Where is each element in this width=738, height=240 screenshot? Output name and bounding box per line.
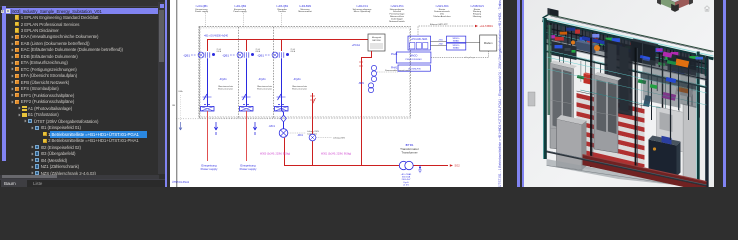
svg-text:WAGO: WAGO <box>410 55 418 58</box>
svg-text:=+I01-QB2: =+I01-QB2 <box>234 5 247 8</box>
svg-text:Lüftung 230V: Lüftung 230V <box>333 137 346 140</box>
svg-text:=+I04-BM1: =+I04-BM1 <box>299 5 312 8</box>
svg-text:Measurement: Measurement <box>298 10 312 13</box>
svg-text:-QB1: -QB1 <box>222 54 229 58</box>
svg-text:Power supply: Power supply <box>195 10 209 13</box>
svg-text:PGA1: PGA1 <box>391 53 398 56</box>
svg-text:-FQA1: -FQA1 <box>219 77 227 81</box>
svg-text:Messgerät: Messgerät <box>372 36 382 39</box>
svg-text:Power supply: Power supply <box>201 167 218 171</box>
svg-text:-BM1: -BM1 <box>358 82 364 85</box>
svg-text:-QB1: -QB1 <box>183 54 190 58</box>
svg-text:PM-M-12DR-MX: PM-M-12DR-MX <box>406 59 423 61</box>
svg-text:Ethernet CAT.5 FTP: Ethernet CAT.5 FTP <box>430 23 448 26</box>
svg-text:Power supply: Power supply <box>240 167 257 171</box>
svg-text:-TB2: -TB2 <box>438 44 444 46</box>
svg-text:Netzwerk/switch: Netzwerk/switch <box>389 20 406 23</box>
svg-text:=+NZ1-PC1: =+NZ1-PC1 <box>390 5 404 8</box>
svg-text:-MC1: -MC1 <box>269 124 276 128</box>
svg-text:Übertrag: Übertrag <box>473 15 482 18</box>
svg-text:PAC3200: PAC3200 <box>372 39 381 42</box>
svg-text:W301 (3x240, 220M, 963kg): W301 (3x240, 220M, 963kg) <box>321 153 351 156</box>
svg-text:Lüftung 230V: Lüftung 230V <box>307 130 320 133</box>
svg-text:ÜTST.I01-PGA1: ÜTST.I01-PGA1 <box>172 181 190 184</box>
svg-text:630 A: 630 A <box>291 50 296 53</box>
svg-text:+B1+TRA1: +B1+TRA1 <box>401 173 413 176</box>
svg-text:Short-circuit prot.: Short-circuit prot. <box>292 87 308 90</box>
svg-text:-FQA1: -FQA1 <box>293 77 301 81</box>
svg-text:VW-SIM-PIN: VW-SIM-PIN <box>408 68 421 70</box>
svg-text:W300 (3x240, 220M, 963kg): W300 (3x240, 220M, 963kg) <box>260 153 290 156</box>
svg-text:=+I01-QB1: =+I01-QB1 <box>195 5 208 8</box>
svg-text:-QB1: -QB1 <box>257 54 264 58</box>
svg-text:Mess- Spannung: Mess- Spannung <box>354 11 371 13</box>
svg-text:+PCA1: +PCA1 <box>352 43 361 47</box>
svg-text:SG2: SG2 <box>455 164 461 168</box>
svg-text:Telefon Anschluss: Telefon Anschluss <box>433 15 451 18</box>
svg-text:=+TAB-WV1: =+TAB-WV1 <box>470 5 484 8</box>
svg-text:Short-circuit prot.: Short-circuit prot. <box>218 87 234 90</box>
svg-text:=+I03-QB1: =+I03-QB1 <box>276 5 289 8</box>
svg-text:=+NZ1-XD1: =+NZ1-XD1 <box>435 5 449 8</box>
svg-text:630 kVA: 630 kVA <box>402 176 411 179</box>
svg-text:uk 6%: uk 6% <box>403 184 409 186</box>
svg-text:-MC1: -MC1 <box>297 134 304 137</box>
svg-text:SMA01: SMA01 <box>453 39 460 42</box>
svg-text:-FQA1: -FQA1 <box>258 77 266 81</box>
svg-text:=+I04-FC1: =+I04-FC1 <box>356 5 369 8</box>
svg-text:Transfer: Transfer <box>278 10 286 13</box>
svg-text:+A1-TAB01: +A1-TAB01 <box>480 24 494 28</box>
svg-text:Modem: Modem <box>484 41 493 45</box>
svg-text:Transformer: Transformer <box>401 150 417 154</box>
svg-text:Short-circuit prot.: Short-circuit prot. <box>257 87 273 90</box>
svg-text:Power supply: Power supply <box>233 10 247 13</box>
svg-text:ÜB: ÜB <box>172 104 176 107</box>
svg-text:SMA02: SMA02 <box>453 46 460 49</box>
svg-text:PHA1: PHA1 <box>391 67 398 70</box>
svg-text:=B1+.I01-W300 4x240: =B1+.I01-W300 4x240 <box>204 35 229 38</box>
svg-text:+PC1-MC-SMA: +PC1-MC-SMA <box>411 38 428 41</box>
svg-text:kWh: kWh <box>179 91 184 93</box>
svg-text:-TB1: -TB1 <box>438 40 444 42</box>
